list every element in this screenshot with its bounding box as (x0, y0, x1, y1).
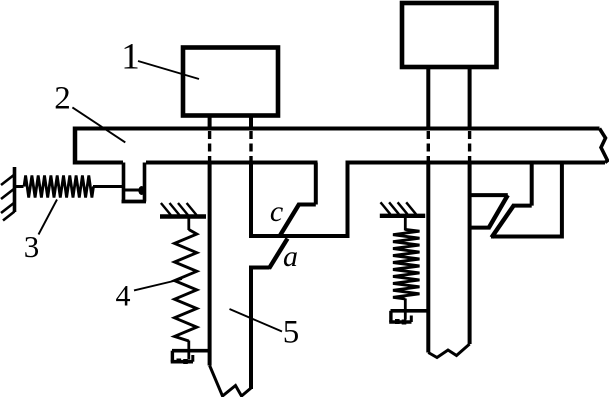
ram wedge tooth (right station): top edge (470, 193, 508, 197)
foot bracket (right): bottom edge (389, 320, 411, 324)
leader line for label 4 (134, 279, 182, 290)
svg-text:2: 2 (54, 81, 71, 117)
claw (left station) slot step (298, 203, 316, 207)
leader line for label 1 (138, 61, 199, 79)
svg-text:4: 4 (116, 280, 131, 313)
ram 5 left edge (left station) (208, 163, 212, 366)
slide bar 2 right end break zigzag (600, 129, 608, 163)
ram 5 bottom break zigzag (left station) (210, 366, 251, 397)
claw (right station) step (513, 204, 532, 208)
leader line for label 5 (230, 309, 283, 332)
leader line for label 2 (72, 107, 125, 142)
lug on bar 2: right edge (143, 163, 147, 202)
claw (left station) slot inner vertical (314, 163, 318, 205)
claw (left station) right edge (346, 161, 350, 239)
lug on bar 2: bottom edge (122, 200, 147, 204)
foot bracket (left): grip teeth (177, 359, 182, 364)
leader line for label 3 (39, 200, 58, 235)
claw (right station) left edge (530, 161, 534, 206)
spring 4 top rod (187, 217, 190, 231)
wall hatching (1, 175, 15, 221)
spring 4 zigzag (175, 230, 197, 342)
ram right edge (right station) (468, 163, 472, 345)
claw (right station) right edge (560, 161, 564, 239)
support hatching (left) (161, 203, 197, 215)
support hatching (right) (381, 202, 417, 214)
foot bracket (right): grip teeth (395, 319, 400, 324)
svg-text:3: 3 (24, 229, 40, 264)
box 2 right stub (468, 67, 472, 131)
lug inner latch line (124, 189, 140, 192)
claw (right station) bottom edge (491, 235, 562, 239)
slide bar 2 bottom edge left segment (73, 161, 123, 165)
hidden line (dashed) right through bar, right station (468, 131, 471, 162)
ram wedge tooth (right station): inclined face (489, 195, 508, 228)
box 2 (right vibrator block) (402, 3, 497, 67)
spring 3 left rod (15, 185, 24, 188)
right spring bottom rod (404, 299, 407, 320)
ram 5 wedge tooth a: top edge (249, 266, 270, 270)
right spring top rod (404, 216, 407, 231)
svg-text:5: 5 (283, 315, 300, 351)
ram left edge (right station) (426, 163, 430, 353)
box 2 left stub (426, 67, 430, 131)
ram bottom break zigzag (right station) (428, 344, 469, 358)
foot bracket (right): top line (391, 309, 429, 313)
hidden line (dashed) left through bar, left station (208, 131, 211, 162)
box 1 left stub (208, 116, 212, 131)
slide bar 2 left edge (73, 127, 78, 165)
ram 5 wedge tooth a: inclined face (269, 239, 288, 269)
claw (right station) inclined face (492, 205, 515, 238)
spring 3 zigzag (24, 176, 94, 198)
svg-text:a: a (283, 240, 298, 273)
fixed wall for spring 3 (13, 167, 17, 212)
hidden line (dashed) right through bar, left station (249, 131, 252, 162)
svg-text:1: 1 (121, 37, 140, 78)
claw (left station) inclined face c (280, 204, 300, 236)
box 1 right stub (249, 116, 253, 131)
support hatch block above spring (right) (380, 214, 425, 218)
ram 5 right edge lower part (left station) (249, 268, 253, 390)
slide bar 2 bottom edge right segment (346, 161, 606, 165)
lug on bar 2: left edge (122, 163, 126, 202)
ram wedge tooth (right station): bottom edge (470, 226, 491, 230)
right spring zigzag (compressed) (393, 230, 420, 300)
foot bracket (left): bottom edge (171, 360, 193, 364)
spring 4 bottom rod (187, 341, 190, 360)
foot bracket (left): inner step (191, 355, 194, 362)
box 1 (left vibrator block) (183, 48, 278, 116)
ram 5 right edge upper part / claw left edge (left station) (249, 161, 253, 239)
slide bar 2 top edge (75, 127, 600, 131)
foot bracket (right): inner step (410, 316, 413, 323)
slide bar 2 bottom edge middle segment (146, 161, 318, 165)
foot bracket (left): left edge (171, 351, 174, 362)
foot bracket (right): left edge (389, 311, 392, 322)
spring 3 right rod (93, 185, 123, 188)
support hatch block above spring 4 (left) (160, 214, 206, 218)
foot bracket on ram 5 (left): top line (172, 349, 210, 353)
hidden line (dashed) left through bar, right station (427, 131, 430, 162)
claw (left station) bottom edge (251, 234, 348, 238)
svg-text:c: c (270, 195, 283, 228)
lug latch pin (138, 186, 145, 195)
